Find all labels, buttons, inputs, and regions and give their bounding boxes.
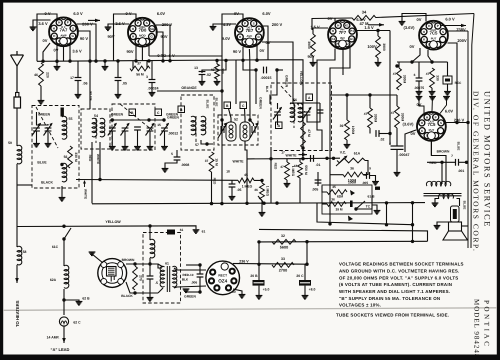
wire bus y60 ext [268, 60, 303, 159]
junction l [224, 59, 227, 62]
wire cap05 gnd [117, 81, 119, 95]
arrow white [299, 154, 308, 156]
wire c2 right [277, 69, 283, 71]
junction coil55b [60, 163, 63, 166]
wire 006 top [199, 265, 201, 274]
svg-text:100M: 100M [351, 126, 355, 135]
svg-text:56 M: 56 M [136, 73, 144, 77]
tube V1 7A7 RF amp [49, 17, 78, 46]
box tone switch [322, 185, 372, 214]
svg-text:UNITED MOTORS SERVICE: UNITED MOTORS SERVICE [483, 91, 492, 228]
ground cap18 [229, 197, 236, 201]
arrow 200V t1 [88, 19, 100, 21]
boxed letter B if2 [224, 102, 231, 109]
ground t5 top [399, 22, 406, 26]
svg-text:BLUE: BLUE [215, 98, 219, 107]
wire antenna entry [17, 184, 32, 186]
wire t2 right pin2 [156, 32, 164, 61]
svg-text:5: 5 [171, 152, 173, 156]
junction 242 b [305, 240, 308, 243]
wire t2 bottom pins [135, 45, 137, 61]
wire c2 left [243, 60, 256, 70]
wire 1meg top [286, 159, 288, 162]
wire r330c top [369, 95, 371, 108]
junction 242 a [257, 240, 260, 243]
ground 1meg [284, 184, 291, 188]
ground cap17 [75, 95, 82, 99]
svg-text:GREEN: GREEN [285, 75, 289, 88]
contact a [350, 190, 355, 196]
wire heater bus y61 [37, 60, 268, 62]
wire t1 grid to ground [33, 20, 51, 27]
junction vib black [133, 291, 136, 294]
wire t4 left res gnd [312, 56, 314, 62]
svg-text:BLUE: BLUE [457, 142, 461, 151]
svg-text:GREEN: GREEN [184, 295, 196, 299]
ground t1 grid [30, 27, 37, 31]
svg-text:32: 32 [281, 234, 285, 238]
wire 307 connect [306, 242, 308, 265]
svg-text:100M: 100M [348, 181, 356, 185]
capacitor .02 b [376, 130, 379, 137]
ground cap0008 [162, 169, 169, 173]
resistor 56 330M [68, 146, 73, 168]
svg-text:0V: 0V [417, 17, 422, 22]
capacitor 5 .0008 [174, 157, 181, 160]
capacitor 18 .05 [229, 184, 236, 187]
wire box1 bottom [61, 186, 63, 197]
box coil 54 [81, 109, 110, 149]
junction y203 a [210, 202, 213, 205]
resistor 44 550M [298, 162, 303, 178]
junction y203 b [220, 202, 223, 205]
svg-text:90 V: 90 V [80, 36, 89, 41]
svg-text:K1: K1 [345, 23, 349, 27]
wire pt top [149, 226, 151, 240]
varcap gang1 [108, 124, 117, 136]
coil IF secondary [201, 116, 206, 135]
varcap 53A [32, 124, 41, 136]
wire bus y203 [92, 203, 425, 204]
wire t1 bottom pins [56, 45, 58, 61]
wire tc top [447, 62, 449, 76]
lamp 62C [59, 317, 68, 326]
svg-text:6.0V: 6.0V [445, 109, 454, 114]
junction gang a [111, 118, 114, 121]
border rail right A [471, 14, 474, 249]
svg-text:550 M: 550 M [304, 165, 308, 175]
wire t6 gnd c [440, 97, 447, 114]
svg-text:GREEN: GREEN [111, 113, 124, 117]
resistor 46 220 [39, 63, 44, 86]
capacitor .005 [315, 180, 322, 183]
wire 386 drop [386, 203, 388, 225]
svg-text:59: 59 [8, 141, 12, 145]
ground 20B [256, 296, 263, 300]
svg-text:BLACK: BLACK [41, 181, 53, 185]
ground out sec [432, 203, 439, 207]
junction if2 right [248, 118, 251, 121]
junction red drop [269, 157, 272, 160]
ground pt [147, 298, 154, 302]
coil output primary [426, 181, 450, 186]
speaker [449, 222, 462, 231]
varcap gang4 gnd [149, 131, 151, 146]
varcap IF2 left [218, 124, 227, 138]
capacitor .006 [197, 274, 204, 277]
wire sec top [174, 268, 206, 270]
junction lineA c [411, 223, 414, 226]
svg-text:S: S [253, 21, 255, 25]
wire oz4 gnd [233, 289, 242, 294]
wire 20B gnd [258, 286, 260, 295]
junction y203 c [275, 201, 278, 204]
ground oz4 [239, 295, 246, 299]
core osc [293, 103, 295, 128]
wire t4 bottom pin2 [342, 50, 344, 76]
svg-text:39 M: 39 M [335, 208, 342, 212]
wire cap0008 top [176, 150, 178, 157]
varcap gang2 gnd [124, 131, 126, 146]
speaker field coil [451, 206, 460, 222]
svg-text:330 M: 330 M [74, 152, 78, 162]
svg-text:MOD: MOD [139, 34, 146, 38]
junction white coil [98, 178, 101, 181]
resistor 47M osc [301, 122, 306, 148]
boxed letter Bosc [276, 122, 283, 129]
wire red mid drop [270, 147, 272, 203]
junction stub2 [103, 59, 106, 62]
svg-text:PUT: PUT [431, 37, 437, 41]
varcap oscA gnd [277, 115, 279, 125]
potentiometer VC 61A [337, 158, 365, 163]
svg-text:S: S [442, 30, 444, 34]
scan edge bottom [0, 355, 500, 360]
switch 61C [64, 228, 71, 239]
svg-text:AMP: AMP [60, 33, 66, 37]
svg-text:RED: RED [430, 161, 438, 165]
svg-text:REC: REC [455, 81, 462, 85]
ground r330b [429, 92, 436, 96]
svg-text:G1: G1 [350, 37, 354, 41]
svg-text:35: 35 [332, 185, 336, 189]
svg-text:TUBE SOCKETS VIEWED FROM T: TUBE SOCKETS VIEWED FROM TERMINAL SIDE. [336, 313, 449, 318]
wire 006 runs [186, 264, 200, 266]
svg-text:33: 33 [281, 257, 285, 261]
svg-text:OZ4: OZ4 [218, 279, 227, 284]
resistor 39 100M [345, 120, 350, 140]
junction g [134, 59, 137, 62]
wire y95 run [330, 94, 397, 96]
wire out sec right [457, 199, 460, 207]
wire 61B gnd [372, 205, 377, 210]
ground t4 left res [310, 63, 317, 67]
wire if2 white down [245, 141, 247, 203]
wire cap005b [317, 172, 319, 186]
ground c13 [199, 82, 206, 86]
ground bus stub2 [102, 67, 109, 71]
ground 46 [38, 101, 45, 105]
svg-text:61 B: 61 B [368, 195, 376, 199]
wire 550m top [299, 159, 301, 162]
wire 62A down [63, 289, 65, 315]
svg-text:INV: INV [340, 36, 345, 40]
gang line osc [281, 86, 305, 112]
svg-text:.02: .02 [380, 138, 385, 142]
wire r330d top [396, 95, 398, 106]
svg-text:GREEN: GREEN [259, 97, 263, 109]
box IF transformer 52 [218, 115, 258, 145]
boxed letter C [155, 109, 162, 116]
svg-text:(3.6V): (3.6V) [404, 25, 416, 30]
wire x330 bus [329, 95, 331, 224]
junction r330a [395, 64, 398, 67]
wire line B [259, 229, 428, 241]
junction 61B [354, 207, 357, 210]
capacitor 6 .00075 [416, 78, 423, 81]
junction bus412 [411, 201, 414, 204]
svg-text:YELLOW: YELLOW [299, 71, 303, 86]
wire 46 gnd [40, 86, 42, 100]
antenna [11, 51, 24, 92]
core pt [166, 266, 168, 292]
coil osc primary [290, 103, 295, 122]
wire vib black [126, 282, 158, 293]
wire t3 bottom pins [242, 47, 244, 60]
varcap IF2 right [250, 124, 258, 138]
wire t6 left [405, 130, 416, 152]
ground gang1 [109, 147, 116, 151]
coil 54 secondary [100, 118, 105, 137]
svg-text:.5: .5 [155, 281, 158, 285]
junction 264 b [305, 263, 308, 266]
resistor 46 1MEG b [260, 183, 265, 200]
svg-text:0V: 0V [260, 48, 265, 53]
wire t6 bottom [430, 141, 432, 156]
svg-text:57: 57 [195, 143, 199, 147]
svg-text:WHITE: WHITE [286, 153, 298, 157]
coil 59 [17, 145, 22, 164]
wire t1 pin top [37, 14, 57, 61]
wire red ct [441, 162, 443, 184]
junction y62 a [410, 60, 413, 63]
junction m [241, 59, 244, 62]
svg-text:.00024: .00024 [148, 87, 159, 91]
wire 006 bot [199, 277, 201, 292]
contact d [348, 216, 353, 222]
ground r48 [214, 82, 221, 86]
resistor 33 2700 [272, 263, 294, 268]
svg-text:RECT: RECT [218, 274, 227, 278]
svg-text:YELLOW: YELLOW [105, 220, 121, 224]
wire row 242 [259, 240, 428, 243]
wire pt cap gnd [149, 279, 151, 297]
wire r37 leads [132, 61, 134, 69]
svg-text:0V: 0V [410, 44, 415, 49]
wire t5 200 rail [448, 43, 458, 123]
box IF transformer 57 [181, 95, 214, 150]
svg-text:220: 220 [46, 72, 50, 78]
wire 39 top [346, 95, 348, 120]
svg-text:9.0V: 9.0V [222, 36, 231, 41]
junction if2 left [220, 118, 223, 121]
wire 54 down white [99, 142, 101, 180]
svg-text:0V: 0V [54, 48, 59, 53]
svg-text:3: 3 [146, 75, 148, 79]
junction mid a [325, 157, 328, 160]
svg-text:6.0V: 6.0V [157, 11, 166, 16]
ground tc [444, 92, 451, 96]
varcap gang5 gnd [164, 131, 166, 146]
capacitor pt .5 [147, 276, 154, 279]
junction gang c [162, 118, 165, 121]
wire t3 right pin down [256, 45, 258, 60]
capacitor 20B electrolytic [253, 280, 265, 286]
wire if res down [211, 172, 213, 204]
svg-text:P: P [67, 21, 69, 25]
svg-text:15: 15 [157, 123, 161, 127]
svg-text:17: 17 [281, 151, 285, 155]
svg-text:46: 46 [254, 188, 258, 192]
resistor 47 1MEG [285, 162, 290, 180]
coil IF2 left [226, 122, 236, 141]
wire if2 clead [244, 109, 247, 123]
ground t6 b [429, 97, 436, 101]
junction yb b [148, 224, 151, 227]
svg-text:7: 7 [451, 154, 453, 158]
svg-text:3.6 V: 3.6 V [38, 21, 48, 26]
junction red tap [440, 161, 443, 164]
junction d [88, 59, 91, 62]
wire if2 top l [221, 120, 224, 126]
svg-text:7A7: 7A7 [60, 27, 68, 32]
svg-text:46: 46 [34, 73, 38, 77]
junction a [41, 60, 44, 63]
svg-text:.005: .005 [312, 188, 319, 192]
wire t4 right pin [357, 30, 390, 32]
svg-text:TO HEATERS: TO HEATERS [15, 300, 20, 327]
wire t4 bottom pin3 [330, 48, 350, 95]
svg-text:200V: 200V [457, 38, 467, 43]
capacitor 20C electrolytic [299, 280, 311, 286]
wire t6 gnd b [431, 97, 434, 112]
junction c2 left [254, 68, 257, 71]
ground t2 grid [105, 27, 112, 31]
svg-text:61C: 61C [52, 245, 59, 249]
tone comp block [443, 76, 452, 84]
wire x390 bus [389, 31, 391, 146]
svg-text:90V: 90V [126, 49, 133, 54]
svg-text:.005: .005 [362, 181, 368, 185]
svg-text:13: 13 [194, 66, 198, 70]
wire blue drop [89, 61, 91, 109]
coil 62A [64, 265, 69, 288]
svg-text:BLK: BLK [265, 86, 269, 93]
wire 20B lead [258, 264, 260, 280]
varcap osc B [303, 108, 312, 120]
svg-text:.06: .06 [83, 82, 88, 86]
svg-text:14 AMP.: 14 AMP. [47, 336, 60, 340]
arrow A lead [63, 326, 65, 343]
ground 61 end [193, 230, 200, 234]
wire t2 grid to ground [108, 24, 129, 27]
wire 61C down [63, 239, 65, 266]
wire speaker to rail [462, 225, 469, 227]
svg-text:61: 61 [202, 230, 206, 234]
svg-text:.00012: .00012 [168, 132, 178, 136]
wire 006 runs2 [186, 291, 200, 293]
arrow to heaters [16, 265, 18, 283]
ground 39 [344, 145, 351, 149]
wire cap001 right [459, 161, 469, 163]
wire tone left2 [322, 203, 327, 205]
svg-text:62A: 62A [50, 278, 57, 282]
svg-text:“A” LEAD: “A” LEAD [51, 347, 70, 352]
wire cap18 gnd [231, 187, 233, 196]
svg-text:(6 VOLTS AT TUBE FILAMENT).: (6 VOLTS AT TUBE FILAMENT). CURRENT DRAI… [339, 282, 452, 287]
wire mid y158 [303, 157, 340, 159]
ground gang5 [161, 147, 168, 151]
svg-text:236 V: 236 V [454, 118, 465, 123]
svg-text:200 V: 200 V [272, 22, 283, 27]
capacitor 17 .06 [75, 78, 82, 81]
junction y95 b [368, 93, 371, 96]
coil output secondary [438, 194, 453, 199]
junction red rail [465, 161, 468, 164]
wire c00075 gnd [418, 81, 420, 91]
wire c13 top run [202, 60, 226, 71]
svg-text:AVC: AVC [247, 34, 253, 38]
varcap 53A gnd wire [36, 131, 38, 143]
wire x236 drop [235, 60, 237, 104]
svg-text:61A: 61A [354, 152, 361, 156]
wire r330b gnd [431, 88, 433, 91]
wire pt pri top [158, 264, 163, 267]
varcap gang4 [146, 124, 155, 136]
svg-text:47: 47 [393, 72, 397, 76]
switch 61B blade [356, 201, 365, 209]
ground spk a [434, 226, 441, 230]
svg-text:3900: 3900 [382, 43, 386, 51]
svg-text:(3.6V): (3.6V) [403, 122, 415, 127]
wire c02b right [379, 133, 390, 135]
ground 62B [76, 302, 83, 306]
wire if2 blead [229, 109, 232, 123]
coil 55 bottom [62, 163, 67, 182]
svg-text:VOLTAGE READINGS BETWEEN SO: VOLTAGE READINGS BETWEEN SOCKET TERMINAL… [339, 262, 464, 267]
svg-text:34: 34 [362, 10, 367, 15]
junction h [147, 59, 150, 62]
ground gang4 [147, 147, 154, 151]
svg-text:WHITE: WHITE [233, 160, 245, 164]
svg-text:RED: RED [88, 155, 92, 162]
scan edge right [497, 0, 500, 360]
junction lineA b [385, 223, 388, 226]
core coil 54 [95, 118, 97, 143]
svg-text:62M: 62M [337, 195, 344, 199]
tube V2 7B8 osc mod [128, 18, 157, 47]
wire brown out [431, 141, 446, 184]
wire t3 pin down long [262, 42, 293, 104]
svg-text:20 B: 20 B [250, 274, 258, 278]
arrow 6.0V t4 [368, 24, 384, 26]
svg-text:+5.0: +5.0 [263, 288, 270, 292]
wire top B line [312, 18, 352, 30]
capacitor osc pad [317, 110, 324, 113]
junction if2 bus [245, 202, 248, 205]
svg-text:47: 47 [426, 72, 430, 76]
svg-text:47: 47 [364, 112, 368, 116]
